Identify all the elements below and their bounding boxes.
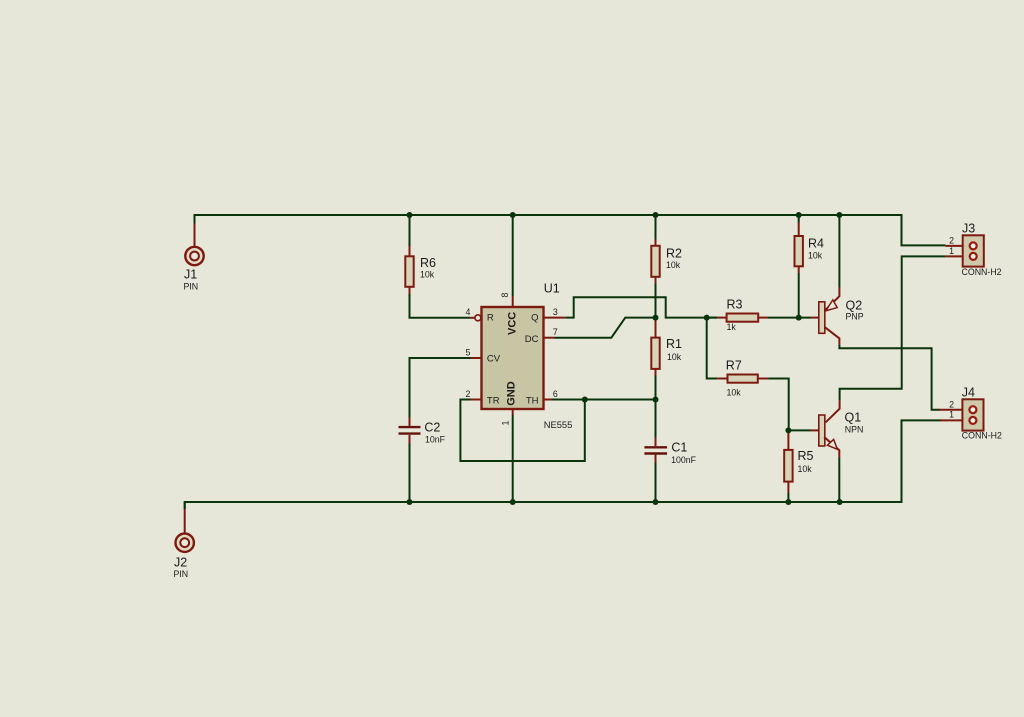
svg-text:U1: U1 [544,282,560,296]
svg-text:C2: C2 [424,420,440,434]
svg-text:4: 4 [465,307,470,317]
pin 1 GND stub [512,409,514,415]
svg-text:Q: Q [531,313,538,324]
pin 8 VCC stub [512,215,514,296]
svg-text:Q2: Q2 [846,299,863,313]
svg-text:J4: J4 [962,386,975,400]
node bottom rail at GND pin [510,499,516,505]
wire Q output with hop [565,297,717,317]
resistor R7 [717,359,788,431]
svg-text:NPN: NPN [845,424,864,434]
svg-text:NE555: NE555 [544,419,573,430]
wire R7 branch [707,318,718,379]
svg-text:CONN-H2: CONN-H2 [962,431,1002,441]
svg-text:C1: C1 [671,440,687,454]
resistor R1 [651,318,682,400]
node Q out / R3 / R7 [704,315,710,321]
capacitor C1 [644,400,696,503]
resistor R2 [651,215,682,318]
connector J3 [945,222,1001,278]
wire CV to C2 [410,358,471,418]
svg-text:R3: R3 [727,298,743,312]
node top rail at R6 [407,212,413,218]
svg-text:10nF: 10nF [425,434,446,444]
svg-text:6: 6 [553,389,558,399]
svg-text:100nF: 100nF [671,455,697,465]
connector J4 [939,386,1002,441]
svg-text:2: 2 [949,236,954,246]
svg-text:R4: R4 [808,237,824,251]
svg-text:1k: 1k [727,322,737,332]
svg-text:VCC: VCC [507,312,519,335]
svg-text:J1: J1 [184,268,197,282]
svg-text:TH: TH [526,396,539,407]
node bottom rail at Q1 emitter [837,499,843,505]
svg-text:2: 2 [465,389,470,399]
wire Q2 emitter column [838,215,840,288]
resistor R4 [795,215,825,318]
node top rail at pin8 [510,212,516,218]
pin 5 CV stub [471,357,482,359]
svg-text:GND: GND [506,381,518,406]
svg-text:J3: J3 [962,222,975,236]
svg-text:10k: 10k [798,464,813,474]
svg-text:7: 7 [553,327,558,337]
svg-text:PIN: PIN [184,282,199,292]
node top rail at Q2 emitter [836,212,842,218]
node bottom rail at C1 [653,499,659,505]
svg-text:10k: 10k [420,270,435,280]
resistor R5 [784,430,813,502]
wire J3 pin1 to Q1 collector [840,256,946,400]
svg-text:CV: CV [487,354,501,365]
svg-text:CONN-H2: CONN-H2 [962,267,1002,277]
connector J1 [184,224,204,292]
wire Q1 emitter column [838,458,840,503]
svg-text:J2: J2 [174,556,187,570]
svg-text:R1: R1 [666,337,682,351]
pin 7 DC stub [544,337,555,339]
svg-text:2: 2 [949,399,954,409]
wire top VCC rail [195,215,946,245]
svg-text:R: R [487,313,494,324]
svg-text:10k: 10k [666,260,681,270]
transistor Q2 [811,287,864,344]
svg-text:3: 3 [553,307,558,317]
op-amp U1 NE555 timer [465,215,572,502]
node R7/R5/Q1 base [785,427,791,433]
capacitor C2 [399,418,446,503]
wire Q1 base from R5/R7 node [788,429,810,431]
svg-text:10k: 10k [727,388,742,398]
pin 2 TR stub [471,399,482,401]
node R1/R2/DC [653,315,659,321]
node bottom rail at R5 [785,499,791,505]
svg-text:DC: DC [525,334,539,345]
resistor R3 [707,298,811,333]
wire Q2 collector to J4 pin2 [839,345,939,410]
svg-text:PIN: PIN [174,569,189,579]
pin 6 TH stub [544,399,552,401]
svg-text:1: 1 [501,421,511,426]
wire DC to R1/R2 node [555,318,657,338]
resistor R6 [405,215,474,318]
svg-text:10k: 10k [667,352,682,362]
node top rail at R2 [653,212,659,218]
svg-text:PNP: PNP [846,312,864,322]
node R3/R4/Q2 base [796,315,802,321]
node bottom rail at C2 [407,499,413,505]
node TH/R1/C1 [653,397,659,403]
svg-text:R5: R5 [798,449,814,463]
svg-text:R2: R2 [666,247,682,261]
svg-text:Q1: Q1 [845,411,862,425]
node TR loop on TH wire [582,397,588,403]
pin 4 bubble [475,315,481,321]
svg-text:TR: TR [487,396,500,407]
svg-text:1: 1 [949,246,954,256]
pin 3 Q stub [544,317,566,319]
junction dots [407,212,843,505]
connector J2 [174,502,194,579]
transistor Q1 [811,400,864,457]
node top rail at R4 [796,212,802,218]
svg-text:8: 8 [500,293,510,298]
wire bottom ground rail [185,420,941,509]
svg-text:R6: R6 [420,256,436,270]
wire TH [552,399,656,401]
svg-text:5: 5 [465,347,470,357]
svg-text:10k: 10k [808,251,823,261]
wire TR loop below chip [460,400,584,462]
svg-text:R7: R7 [726,359,742,373]
svg-text:1: 1 [949,409,954,419]
